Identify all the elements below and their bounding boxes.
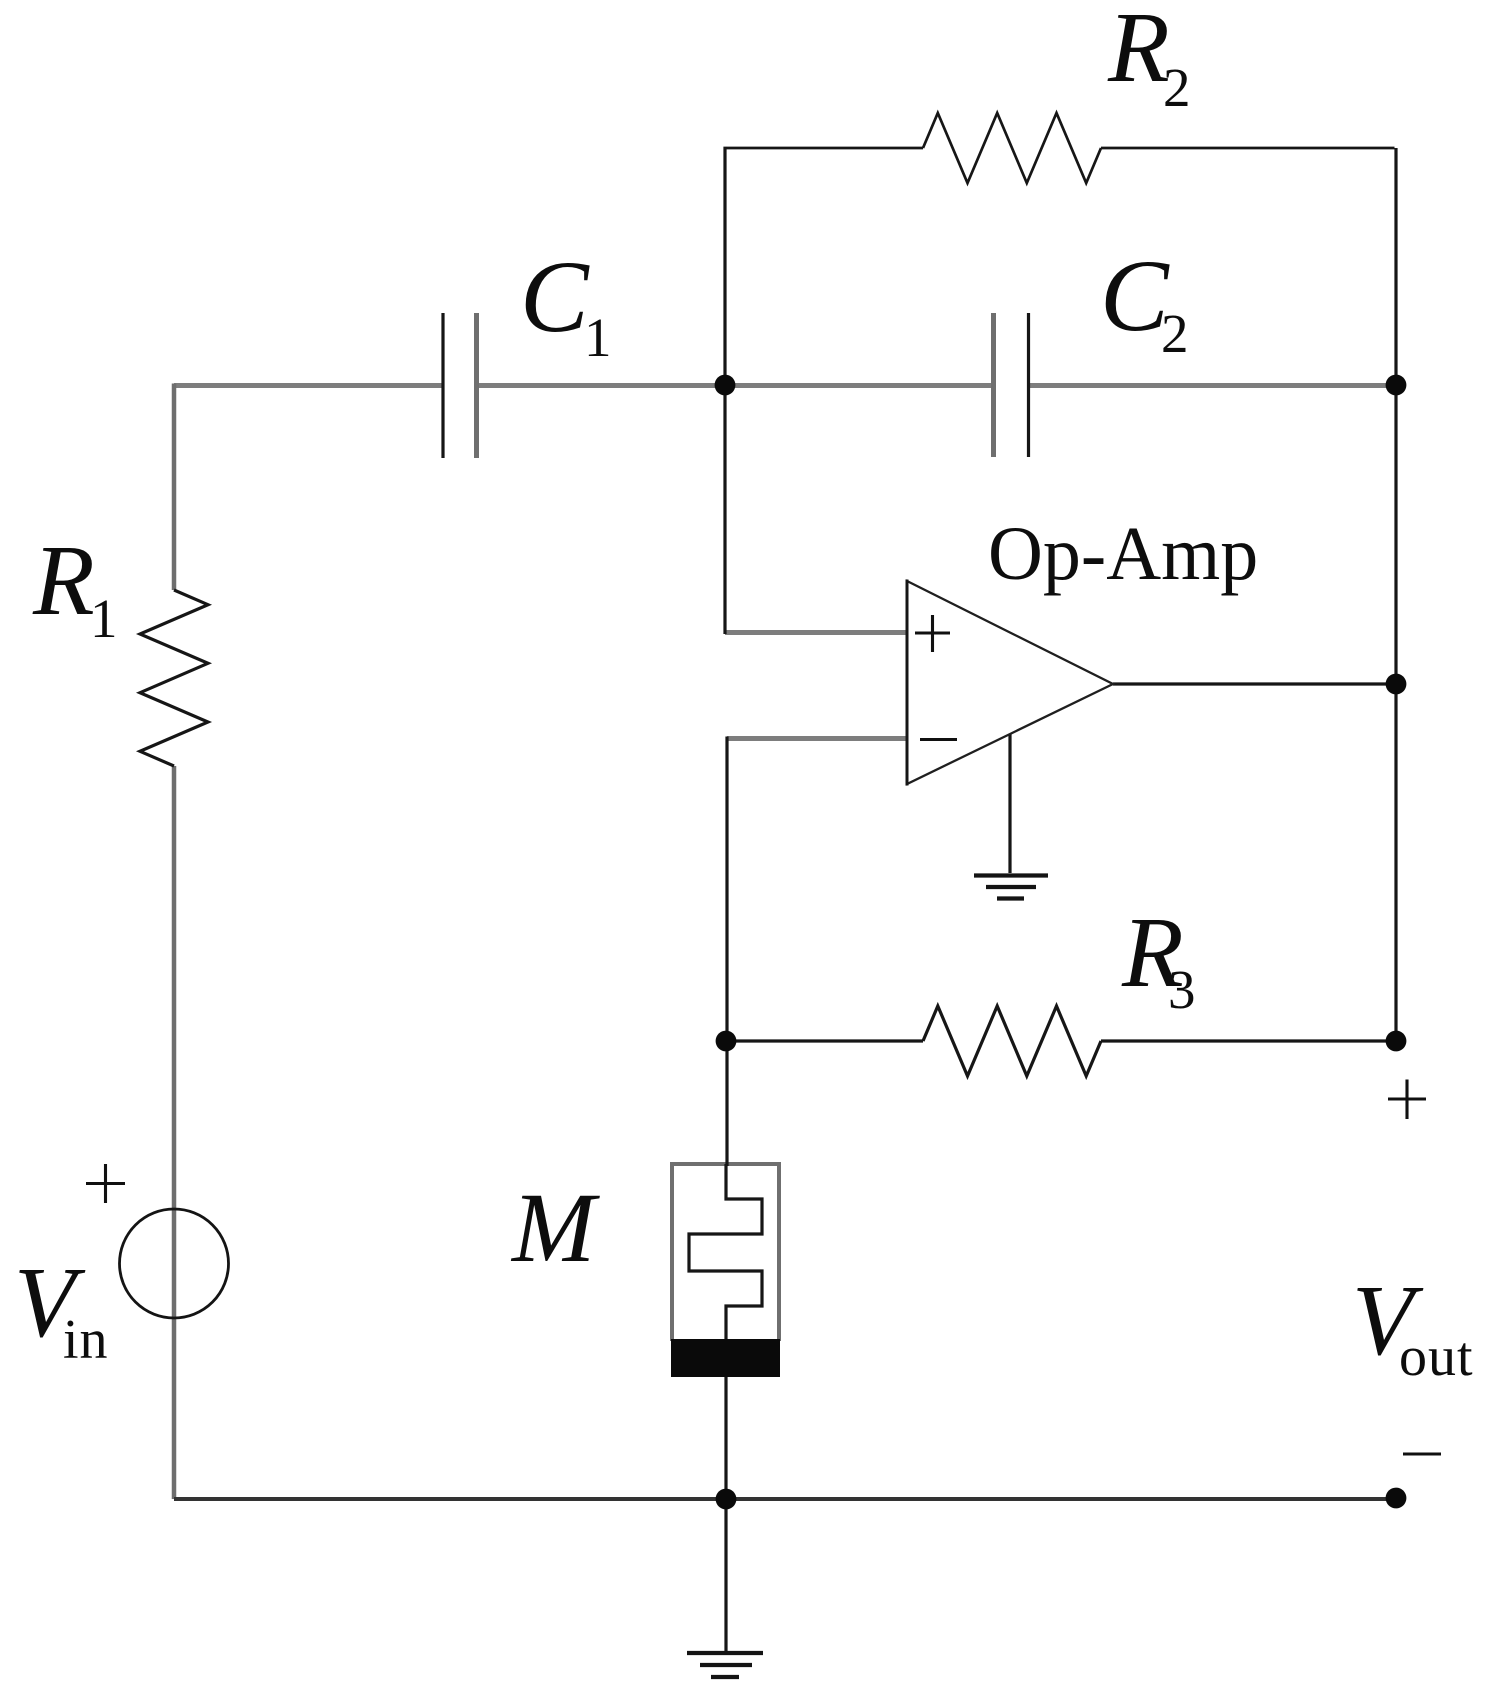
svg-text:2: 2 xyxy=(1163,57,1191,118)
svg-text:3: 3 xyxy=(1168,959,1196,1020)
svg-text:1: 1 xyxy=(584,307,612,368)
svg-text:2: 2 xyxy=(1161,303,1189,364)
svg-text:1: 1 xyxy=(90,588,118,649)
svg-text:R: R xyxy=(1107,0,1170,103)
svg-text:C: C xyxy=(1100,239,1170,353)
svg-text:M: M xyxy=(510,1172,600,1283)
svg-text:Op-Amp: Op-Amp xyxy=(988,512,1258,596)
svg-text:in: in xyxy=(63,1309,109,1371)
svg-text:C: C xyxy=(520,240,590,354)
svg-text:R: R xyxy=(32,524,95,636)
svg-text:out: out xyxy=(1399,1326,1474,1388)
